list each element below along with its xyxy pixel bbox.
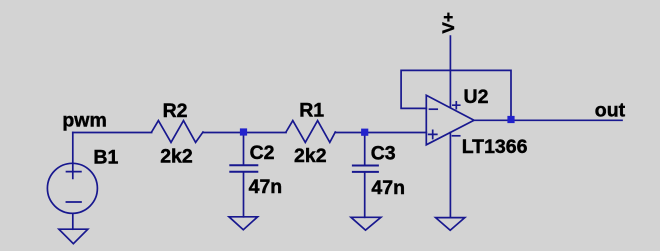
svg-text:C3: C3 (371, 142, 396, 164)
svg-text:2k2: 2k2 (294, 145, 327, 167)
svg-text:2k2: 2k2 (160, 146, 193, 168)
svg-text:47n: 47n (371, 177, 405, 199)
svg-text:47n: 47n (249, 176, 283, 198)
svg-text:C2: C2 (250, 142, 275, 164)
svg-text:out: out (595, 100, 626, 122)
svg-text:B1: B1 (93, 146, 118, 168)
svg-text:U2: U2 (464, 86, 489, 108)
svg-text:pwm: pwm (62, 110, 106, 132)
svg-text:LT1366: LT1366 (462, 136, 528, 158)
svg-text:V+: V+ (439, 12, 458, 33)
svg-text:R1: R1 (299, 100, 324, 122)
svg-text:R2: R2 (163, 100, 188, 122)
